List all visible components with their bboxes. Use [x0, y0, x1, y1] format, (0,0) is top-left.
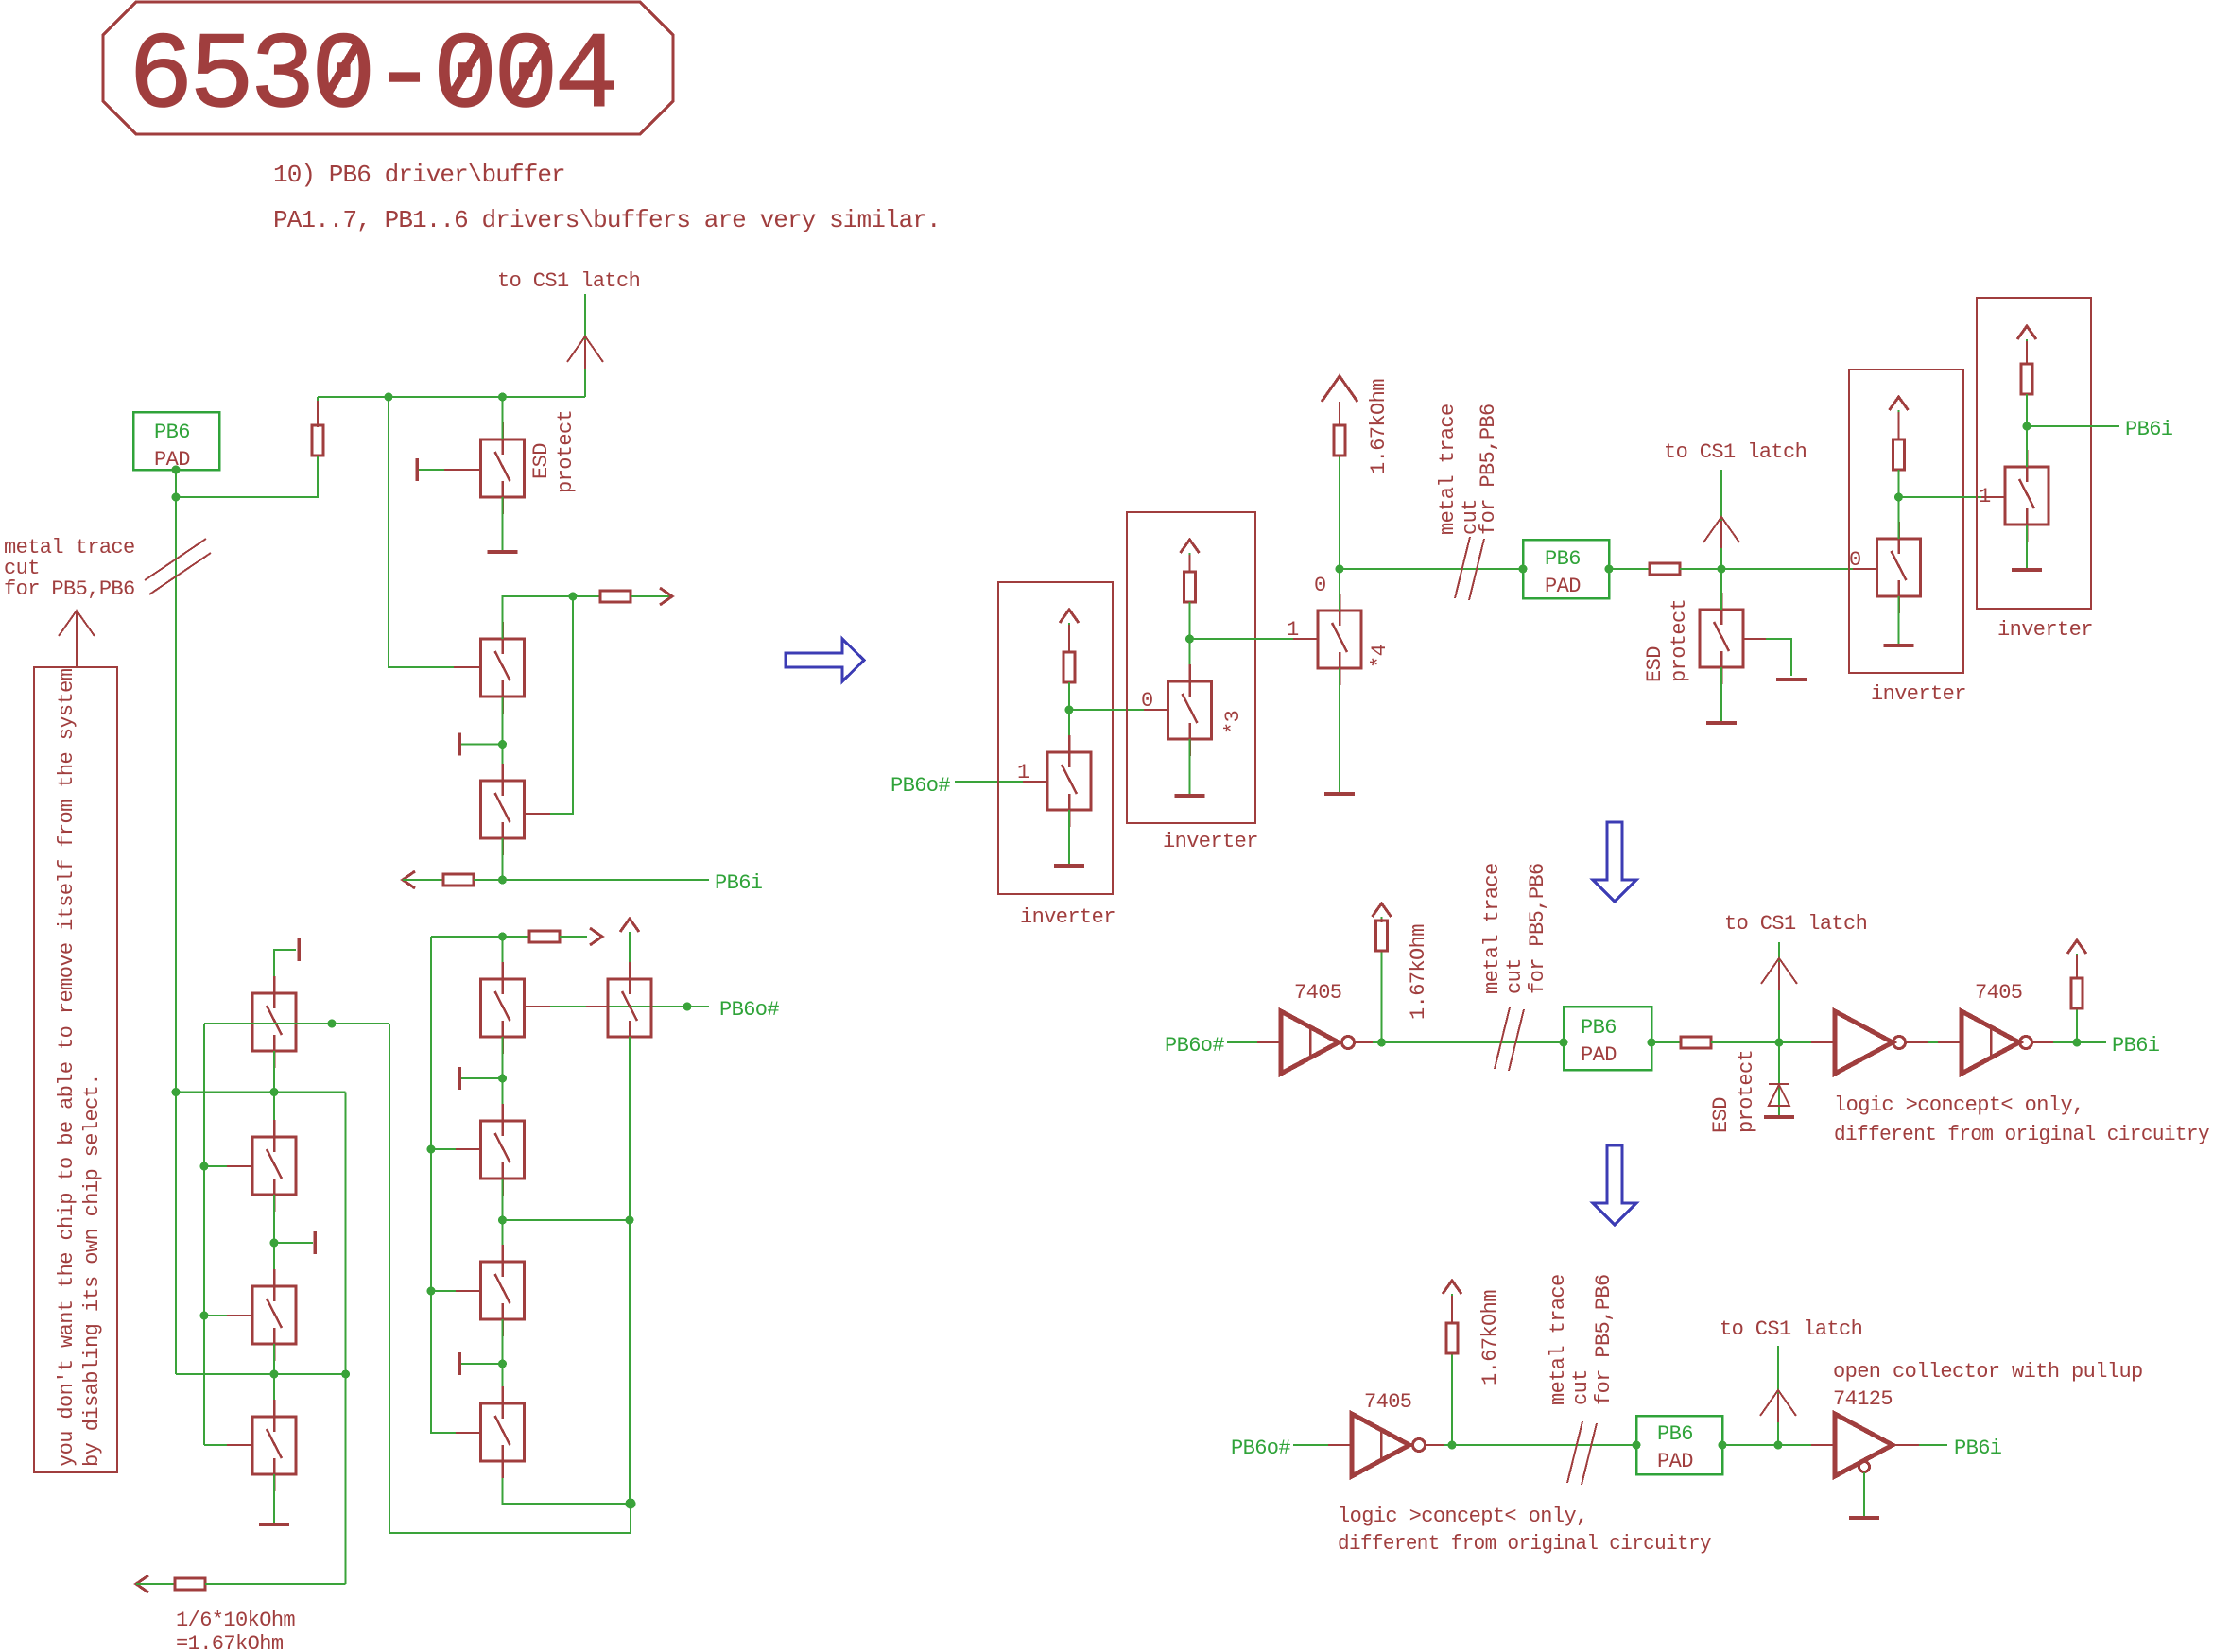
vdd arrow pullup v1: [1322, 376, 1357, 402]
svg-text:PB6: PB6: [1657, 1422, 1693, 1446]
svg-text:metal trace: metal trace: [1480, 863, 1504, 994]
resistor pad pullup v1: [312, 425, 323, 456]
wire T4 source to T5: [502, 697, 504, 781]
inv1 wire res to transistor: [1068, 682, 1070, 752]
svg-text:protect: protect: [1668, 599, 1691, 682]
transistor TR2: [481, 1104, 525, 1196]
comment arrow up: [59, 611, 95, 636]
title octagon frame: [103, 2, 673, 134]
svg-text:PB6i: PB6i: [715, 871, 763, 895]
svg-text:*4: *4: [1368, 644, 1392, 668]
svg-text:inverter: inverter: [1871, 682, 1966, 706]
resistor out1: [600, 591, 631, 602]
node TR1 drain: [498, 933, 507, 941]
svg-text:for PB5,PB6: for PB5,PB6: [4, 577, 135, 601]
ESD gate wire: [419, 469, 481, 471]
wire TLa drain + T-bar: [274, 950, 296, 993]
wire CS1 stub v2: [1720, 470, 1722, 569]
node 1454: [270, 1370, 279, 1379]
wire CS1 stub v1: [584, 294, 586, 397]
svg-text:PB6o#: PB6o#: [890, 774, 950, 798]
buffer triangle v3 (plain): [1835, 1011, 1893, 1074]
wire 1291 horizontal: [503, 1219, 631, 1221]
T3 drain arrow: [620, 919, 639, 932]
inverter1 v2 outline: [1849, 370, 1963, 673]
svg-text:different from original circui: different from original circuitry: [1834, 1123, 2209, 1146]
svg-text:metal trace: metal trace: [1436, 404, 1460, 535]
wire to CS1 node v3: [1711, 1041, 1835, 1043]
wire CS1 stub v4: [1777, 1346, 1779, 1445]
wire TR1 source chain: [502, 1037, 504, 1121]
wire TLa gate net horizontal: [204, 1023, 389, 1024]
buffer 74125: [1835, 1414, 1893, 1476]
gate TR2: [431, 1148, 481, 1150]
gate TLb: [204, 1165, 252, 1167]
PB6i line: arrow left: [403, 871, 415, 888]
node TLa-line: [270, 1088, 279, 1096]
transistor TR3: [481, 1245, 525, 1336]
wire *4 drain up: [1339, 569, 1340, 611]
wire T3 source down: [629, 1037, 631, 1504]
svg-text:PB6: PB6: [1545, 547, 1581, 571]
trace cut slashes (left): [145, 539, 206, 580]
node CS1 v2: [1718, 565, 1726, 574]
svg-text:PB6o#: PB6o#: [1231, 1437, 1290, 1460]
PB6o# gate line through T3: [525, 1006, 710, 1007]
transistor T3: [608, 962, 651, 1054]
wire resistor to arrow out1: [631, 595, 669, 597]
node pullup out v3: [2073, 1039, 2082, 1047]
svg-text:inverter: inverter: [1020, 905, 1115, 929]
inv2 resistor: [1184, 572, 1196, 602]
inv1 v2 gnd: [1898, 596, 1900, 645]
wire inv1 out to *3 gate: [1069, 709, 1168, 711]
wire TLa source: [273, 1051, 275, 1137]
PB6 PAD box v3: [1564, 1007, 1651, 1070]
enable gnd 74125: [1863, 1472, 1865, 1518]
inverter1 outline box: [998, 582, 1113, 894]
node inv1 v2 out: [1894, 493, 1903, 502]
output wire 74125: [1893, 1444, 1947, 1446]
comment box: [34, 667, 117, 1472]
wire CS1 stub v3: [1778, 942, 1780, 1042]
wire PB6i to label: [474, 879, 709, 881]
node T4-T5: [498, 740, 507, 749]
svg-text:PB6i: PB6i: [2125, 418, 2173, 441]
node rail-ESD: [498, 393, 507, 402]
svg-text:PB6i: PB6i: [2112, 1034, 2160, 1058]
arrow up on CS1 wire v1: [567, 336, 603, 362]
transistor *4: [1318, 594, 1361, 685]
transistor TLc: [252, 1269, 296, 1361]
wire rail 991: [431, 936, 503, 938]
gate TLd: [204, 1444, 252, 1446]
wire PB6o# to 7405: [1227, 1041, 1281, 1043]
wire gate column x456: [431, 937, 473, 1433]
node T3-1291: [626, 1216, 634, 1225]
inv2 wire to transistor: [1189, 602, 1191, 681]
bubble v3c: [2020, 1037, 2032, 1049]
wire resistor to pad junction: [176, 456, 318, 497]
svg-text:PB6i: PB6i: [1954, 1437, 2002, 1460]
svg-text:1/6*10kOhm: 1/6*10kOhm: [176, 1609, 295, 1632]
inv1 transistor: [1047, 735, 1091, 827]
node pad junction: [172, 493, 181, 502]
svg-text:10) PB6 driver\buffer: 10) PB6 driver\buffer: [273, 161, 565, 189]
bottom resistor line: [136, 1575, 148, 1592]
wire v1 out to v2: [1340, 568, 1523, 570]
wire horizontal 1155: [176, 1092, 346, 1093]
node bottom join: [626, 1499, 636, 1509]
node PB6i: [498, 876, 507, 885]
wire PB6o# to inv1 gate: [955, 781, 1047, 783]
inv1 v2 transistor: [1877, 522, 1921, 613]
node TR1 tbar: [498, 1075, 507, 1083]
wire ESD source to gnd: [502, 497, 504, 552]
wire pullup v3: [1381, 951, 1383, 1042]
wire TR4 source to join: [503, 1461, 631, 1504]
bubble v3b: [1893, 1037, 1906, 1049]
ESD transistor v2: [1700, 593, 1743, 684]
svg-text:you don't want the chip to be: you don't want the chip to be able to re…: [55, 668, 78, 1467]
node PB6i v2: [2023, 422, 2031, 431]
node TR3 tbar: [498, 1360, 507, 1368]
svg-text:PB6: PB6: [1581, 1016, 1617, 1040]
gate TR3: [431, 1290, 481, 1292]
svg-text:1.67kOhm: 1.67kOhm: [1367, 379, 1391, 474]
node CS1 v3: [1775, 1039, 1784, 1047]
inv1 vdd arrow: [1060, 610, 1079, 623]
resistor series v2: [1650, 563, 1680, 575]
svg-text:ESD: ESD: [1643, 646, 1667, 682]
resistor pullup v3: [1376, 921, 1388, 951]
wire gate column x217: [203, 1024, 205, 1445]
svg-text:7405: 7405: [1294, 981, 1341, 1005]
inverter2 outline box: [1127, 512, 1255, 823]
wire TLb-TLc: [273, 1195, 275, 1286]
ESD gate T-bar: [416, 458, 419, 481]
inv2 v2 transistor: [2005, 450, 2049, 542]
wire PB6o# to 7405 v4: [1293, 1444, 1352, 1446]
svg-text:open collector with pullup: open collector with pullup: [1833, 1360, 2143, 1384]
svg-text:PB6o#: PB6o#: [1165, 1034, 1224, 1058]
zero slashes: [327, 42, 359, 95]
resistor PB6i: [443, 874, 474, 886]
transistor TLb: [252, 1120, 296, 1212]
*4 gnd: [1339, 668, 1340, 794]
svg-text:PAD: PAD: [1545, 575, 1581, 598]
wire to pad v4: [1426, 1444, 1636, 1446]
wire pad to resistor v2: [1609, 568, 1650, 570]
PB6 PAD box v4: [1636, 1416, 1722, 1474]
wire rail to ESD: [502, 397, 504, 439]
svg-text:logic >concept< only,: logic >concept< only,: [1834, 1093, 2084, 1117]
svg-text:*3: *3: [1221, 711, 1245, 734]
wire TR3 source: [502, 1319, 504, 1403]
inv1 v2 pullup: [1890, 397, 1909, 410]
wire pad to resistor v3: [1651, 1041, 1681, 1043]
transistor *3: [1168, 664, 1212, 756]
wire rail to resistor: [317, 397, 319, 425]
node pullup v3: [1377, 1039, 1386, 1047]
trace cut slashes v4: [1567, 1421, 1582, 1483]
svg-text:inverter: inverter: [1997, 618, 2093, 642]
7405 inverter v4: [1352, 1414, 1409, 1476]
inv1 gnd: [1068, 810, 1070, 866]
ESD diode v3: [1778, 1042, 1780, 1117]
node pad pin: [172, 466, 181, 474]
node *4 drain: [1336, 565, 1344, 574]
svg-text:to CS1 latch: to CS1 latch: [1724, 912, 1867, 936]
svg-text:ESD: ESD: [529, 443, 553, 479]
svg-text:different from original circui: different from original circuitry: [1338, 1532, 1711, 1556]
transistor TLa: [252, 976, 296, 1068]
svg-text:PA1..7, PB1..6 drivers\buffers: PA1..7, PB1..6 drivers\buffers are very …: [273, 206, 941, 234]
transistor TR1: [481, 962, 525, 1054]
svg-text:1.67kOhm: 1.67kOhm: [1478, 1290, 1502, 1385]
svg-text:by disabling its own chip sele: by disabling its own chip select.: [80, 1074, 104, 1467]
node pullup v4: [1448, 1441, 1457, 1450]
svg-text:for PB5,PB6: for PB5,PB6: [1526, 863, 1549, 994]
trace cut slashes v2: [1455, 537, 1470, 598]
trace cut slashes v3: [1495, 1007, 1510, 1069]
wire TLd source to gnd: [273, 1474, 275, 1524]
wire between buffers v3: [1906, 1041, 1962, 1043]
node CS1 v4: [1774, 1441, 1783, 1450]
PB6 PAD box v1: [133, 412, 219, 470]
node 1291: [498, 1216, 507, 1225]
wire horizontal 1454: [176, 1373, 346, 1375]
svg-text:protect: protect: [554, 410, 578, 493]
wire TLc source: [273, 1344, 275, 1417]
svg-text:for PB5,PB6: for PB5,PB6: [1477, 404, 1500, 535]
arrow right out1: [660, 588, 672, 605]
svg-text:protect: protect: [1735, 1050, 1758, 1133]
vdd arrow v3: [1373, 903, 1392, 917]
wire resistor to gate v2: [1680, 568, 1877, 570]
node PB6o#: [683, 1003, 692, 1011]
wire res991: [503, 936, 530, 938]
inverter2 v2 outline: [1977, 298, 2091, 609]
ESD v2 source gnd: [1720, 667, 1722, 723]
svg-text:PAD: PAD: [1581, 1043, 1617, 1067]
red gate pin stubs: [227, 340, 2077, 1445]
wire T5 gate chain: [525, 596, 574, 814]
wire T4 drain corner: [503, 596, 574, 639]
blue arrow down 2: [1593, 1145, 1636, 1225]
svg-text:cut: cut: [1503, 958, 1527, 994]
svg-text:74125: 74125: [1833, 1387, 1893, 1411]
bubble v3a: [1342, 1037, 1355, 1049]
svg-text:6530-004: 6530-004: [129, 17, 619, 139]
svg-text:PAD: PAD: [1657, 1450, 1693, 1473]
node out1: [569, 593, 578, 601]
7405 inverter v3a: [1281, 1011, 1339, 1074]
svg-text:0: 0: [1314, 574, 1326, 597]
transistor T5: [481, 764, 525, 855]
ESD v2 gate hook to gnd: [1743, 639, 1791, 676]
wire pad to buffer v4: [1722, 1444, 1835, 1446]
inv2 vdd arrow: [1181, 540, 1200, 553]
transistor TR4: [481, 1386, 525, 1478]
inv2 v2 gnd: [2026, 525, 2028, 570]
svg-text:cut: cut: [1569, 1369, 1593, 1405]
7405 inverter v3b: [1962, 1011, 2019, 1074]
svg-text:ESD: ESD: [1709, 1097, 1733, 1133]
ground ESD v1: [488, 551, 518, 554]
wire rail to T4 gate: [389, 397, 481, 667]
blue arrow down 1: [1593, 822, 1636, 902]
wire to resistor out1: [573, 595, 600, 597]
transistor T4: [481, 622, 525, 714]
svg-text:to CS1 latch: to CS1 latch: [497, 269, 640, 293]
enable bubble 74125: [1859, 1462, 1870, 1472]
svg-text:PB6: PB6: [154, 421, 190, 444]
svg-text:inverter: inverter: [1163, 830, 1258, 853]
resistor pullup v1: [1334, 425, 1345, 456]
blue arrow right: [786, 639, 864, 681]
svg-text:1.67kOhm: 1.67kOhm: [1407, 924, 1430, 1020]
svg-text:to CS1 latch: to CS1 latch: [1664, 440, 1807, 464]
svg-text:logic >concept< only,: logic >concept< only,: [1338, 1505, 1588, 1528]
wire pullup v1: [1339, 456, 1340, 569]
wire pad vertical long: [175, 470, 177, 1374]
svg-text:for PB5,PB6: for PB5,PB6: [1592, 1274, 1616, 1405]
wire inv1 v2 out to inv2 gate: [1899, 496, 2006, 498]
T-bar at T4 source: [458, 733, 461, 756]
svg-text:PB6o#: PB6o#: [719, 998, 779, 1022]
transistor TLd: [252, 1400, 296, 1491]
wire gate net right corner down: [389, 1024, 631, 1533]
svg-text:7405: 7405: [1364, 1390, 1411, 1414]
svg-text:to CS1 latch: to CS1 latch: [1720, 1317, 1862, 1341]
wire top rail v1: [318, 396, 585, 398]
wire TR1 top: [502, 937, 504, 979]
node TLa gate: [328, 1020, 337, 1028]
ESD transistor v1: [481, 422, 525, 514]
svg-text:7405: 7405: [1975, 981, 2022, 1005]
wire inv2 out to *4 gate: [1190, 638, 1319, 640]
wire PB6i v2: [2027, 425, 2119, 427]
pullup out v3: [2076, 1008, 2078, 1042]
node inv2 out: [1185, 635, 1194, 644]
node rail-T4gate: [385, 393, 393, 402]
wire bubble to pad v3: [1355, 1041, 1564, 1043]
svg-text:=1.67kOhm: =1.67kOhm: [176, 1632, 284, 1652]
inv2 v2 pullup: [2017, 326, 2036, 339]
inv1 resistor: [1063, 652, 1075, 682]
node inv1 out: [1065, 706, 1074, 714]
wire to PB6i v3: [2032, 1041, 2106, 1043]
gate TLc: [204, 1315, 252, 1316]
svg-text:metal trace: metal trace: [1547, 1274, 1570, 1405]
wire TR2-TR3: [502, 1179, 504, 1262]
inv2 gnd: [1189, 739, 1191, 796]
pullup v4: [1451, 1353, 1453, 1445]
series resistor v3: [1681, 1037, 1711, 1048]
bubble v4a: [1413, 1439, 1426, 1452]
ground TLd: [259, 1523, 289, 1526]
wire T5 source to PB6i: [502, 838, 504, 880]
wire x365 vertical: [345, 1093, 347, 1585]
node pad-1155: [172, 1088, 181, 1096]
node TLb source T-bar: [270, 1239, 279, 1248]
PB6 PAD box v2: [1523, 540, 1609, 598]
